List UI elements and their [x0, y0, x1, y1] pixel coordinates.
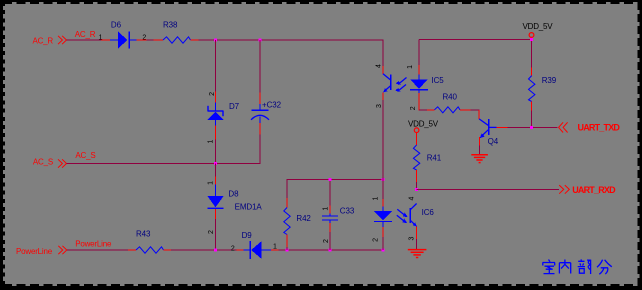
transistor Q4 [479, 110, 508, 154]
svg-text:D9: D9 [242, 231, 253, 240]
resistor R38 [154, 37, 199, 43]
svg-text:D6: D6 [111, 20, 122, 29]
node junction bottom rail at D8 [214, 249, 217, 252]
wire PowerLine rail [67, 249, 384, 251]
svg-text:IC5: IC5 [432, 76, 445, 85]
svg-text:UART_RXD: UART_RXD [572, 185, 616, 195]
svg-text:4: 4 [409, 197, 416, 201]
svg-text:R41: R41 [427, 154, 442, 163]
svg-text:3: 3 [376, 104, 383, 108]
ground IC6 emitter [408, 250, 427, 258]
node junction middle rail at C33 [329, 178, 332, 181]
svg-text:AC_R: AC_R [75, 30, 96, 39]
node junction bottom rail at C33 [329, 249, 332, 252]
wire AC_R rail [67, 40, 384, 66]
capacitor C33 [322, 206, 338, 232]
op-amp IC6 LED side [374, 199, 392, 237]
svg-text:IC6: IC6 [422, 208, 435, 217]
op-amp IC5 phototransistor side [383, 66, 391, 100]
node junction top rail at D7 [214, 39, 217, 42]
power VDD_5V middle [414, 128, 419, 133]
svg-text:2: 2 [410, 106, 417, 110]
svg-text:Q4: Q4 [488, 137, 499, 146]
port UART_TXD [559, 122, 568, 132]
svg-text:R42: R42 [296, 214, 311, 223]
svg-text:AC_S: AC_S [75, 151, 95, 160]
port UART_RXD [559, 185, 569, 194]
diode D6 [101, 32, 147, 49]
node junction AC_S at D7/D8 [214, 162, 217, 165]
ground Q4 emitter [471, 155, 488, 163]
capacitor C32 [251, 93, 269, 135]
svg-text:AC_R: AC_R [32, 36, 53, 45]
svg-text:1: 1 [322, 207, 329, 211]
svg-text:1: 1 [373, 197, 380, 201]
resistor R43 [128, 247, 171, 253]
svg-text:R38: R38 [163, 20, 178, 29]
power VDD_5V top [529, 33, 534, 38]
svg-text:D7: D7 [229, 102, 240, 111]
svg-text:R40: R40 [443, 93, 458, 102]
wire opto column [382, 100, 384, 250]
svg-text:3: 3 [409, 237, 416, 241]
node junction bottom rail at IC6 LED [382, 249, 385, 252]
svg-text:2: 2 [323, 239, 330, 243]
svg-text:R43: R43 [136, 229, 151, 238]
svg-text:R39: R39 [542, 76, 557, 85]
svg-text:AC_S: AC_S [33, 157, 53, 166]
svg-text:D8: D8 [228, 190, 239, 199]
node junction bottom rail at R42 [286, 249, 289, 252]
svg-text:2: 2 [373, 238, 380, 242]
resistor R39 [529, 68, 535, 128]
svg-text:1: 1 [273, 244, 277, 251]
node junction top rail at C32 [259, 39, 262, 42]
diode D8 [208, 177, 224, 220]
op-amp IC6 light arrows [397, 209, 408, 223]
zener diode D7 [208, 92, 224, 140]
port AC_S [58, 159, 67, 167]
diode D8 wires [215, 164, 217, 251]
svg-text:1: 1 [207, 140, 214, 144]
svg-text:UART_TXD: UART_TXD [578, 122, 621, 132]
svg-text:+C32: +C32 [262, 101, 282, 110]
svg-text:PowerLine: PowerLine [16, 247, 53, 256]
node junction middle rail at opto column [382, 178, 385, 181]
op-amp IC5 LED side [410, 39, 428, 110]
node junction R41/RXD [415, 188, 418, 191]
annotation chinese indoor section [543, 259, 612, 274]
port PowerLine [58, 246, 67, 254]
svg-text:VDD_5V: VDD_5V [523, 22, 554, 31]
capacitor C32 branch wires [259, 40, 261, 164]
svg-text:C33: C33 [340, 206, 355, 215]
node junction R39/Q4/TXD [530, 126, 533, 129]
svg-text:1: 1 [207, 181, 214, 185]
svg-text:2: 2 [142, 34, 146, 41]
resistor R41 [413, 133, 419, 190]
svg-text:EMD1A: EMD1A [235, 203, 263, 212]
wire UART_RXD [417, 188, 560, 190]
resistor R42 [284, 198, 290, 247]
svg-text:VDD_5V: VDD_5V [408, 120, 439, 129]
svg-text:2: 2 [209, 92, 216, 96]
op-amp IC5 light arrows [395, 78, 406, 92]
svg-text:PowerLine: PowerLine [75, 240, 112, 249]
op-amp IC6 phototransistor side [409, 204, 417, 250]
port AC_R [58, 36, 67, 44]
wire AC_S [67, 163, 261, 165]
svg-text:2: 2 [231, 245, 235, 252]
wire VDD to R39 top [419, 39, 532, 67]
resistor R40 [427, 107, 471, 113]
wire collector to TXD [508, 126, 558, 128]
svg-text:1: 1 [99, 34, 103, 41]
wire R40 row [419, 109, 480, 111]
svg-text:1: 1 [407, 65, 414, 69]
svg-text:2: 2 [208, 230, 215, 234]
wire middle rail R42/C33 [287, 180, 384, 251]
node junction VDD top [530, 38, 533, 41]
diode D9 [236, 241, 278, 259]
wire D7 branch [215, 40, 217, 164]
svg-text:4: 4 [376, 64, 383, 68]
